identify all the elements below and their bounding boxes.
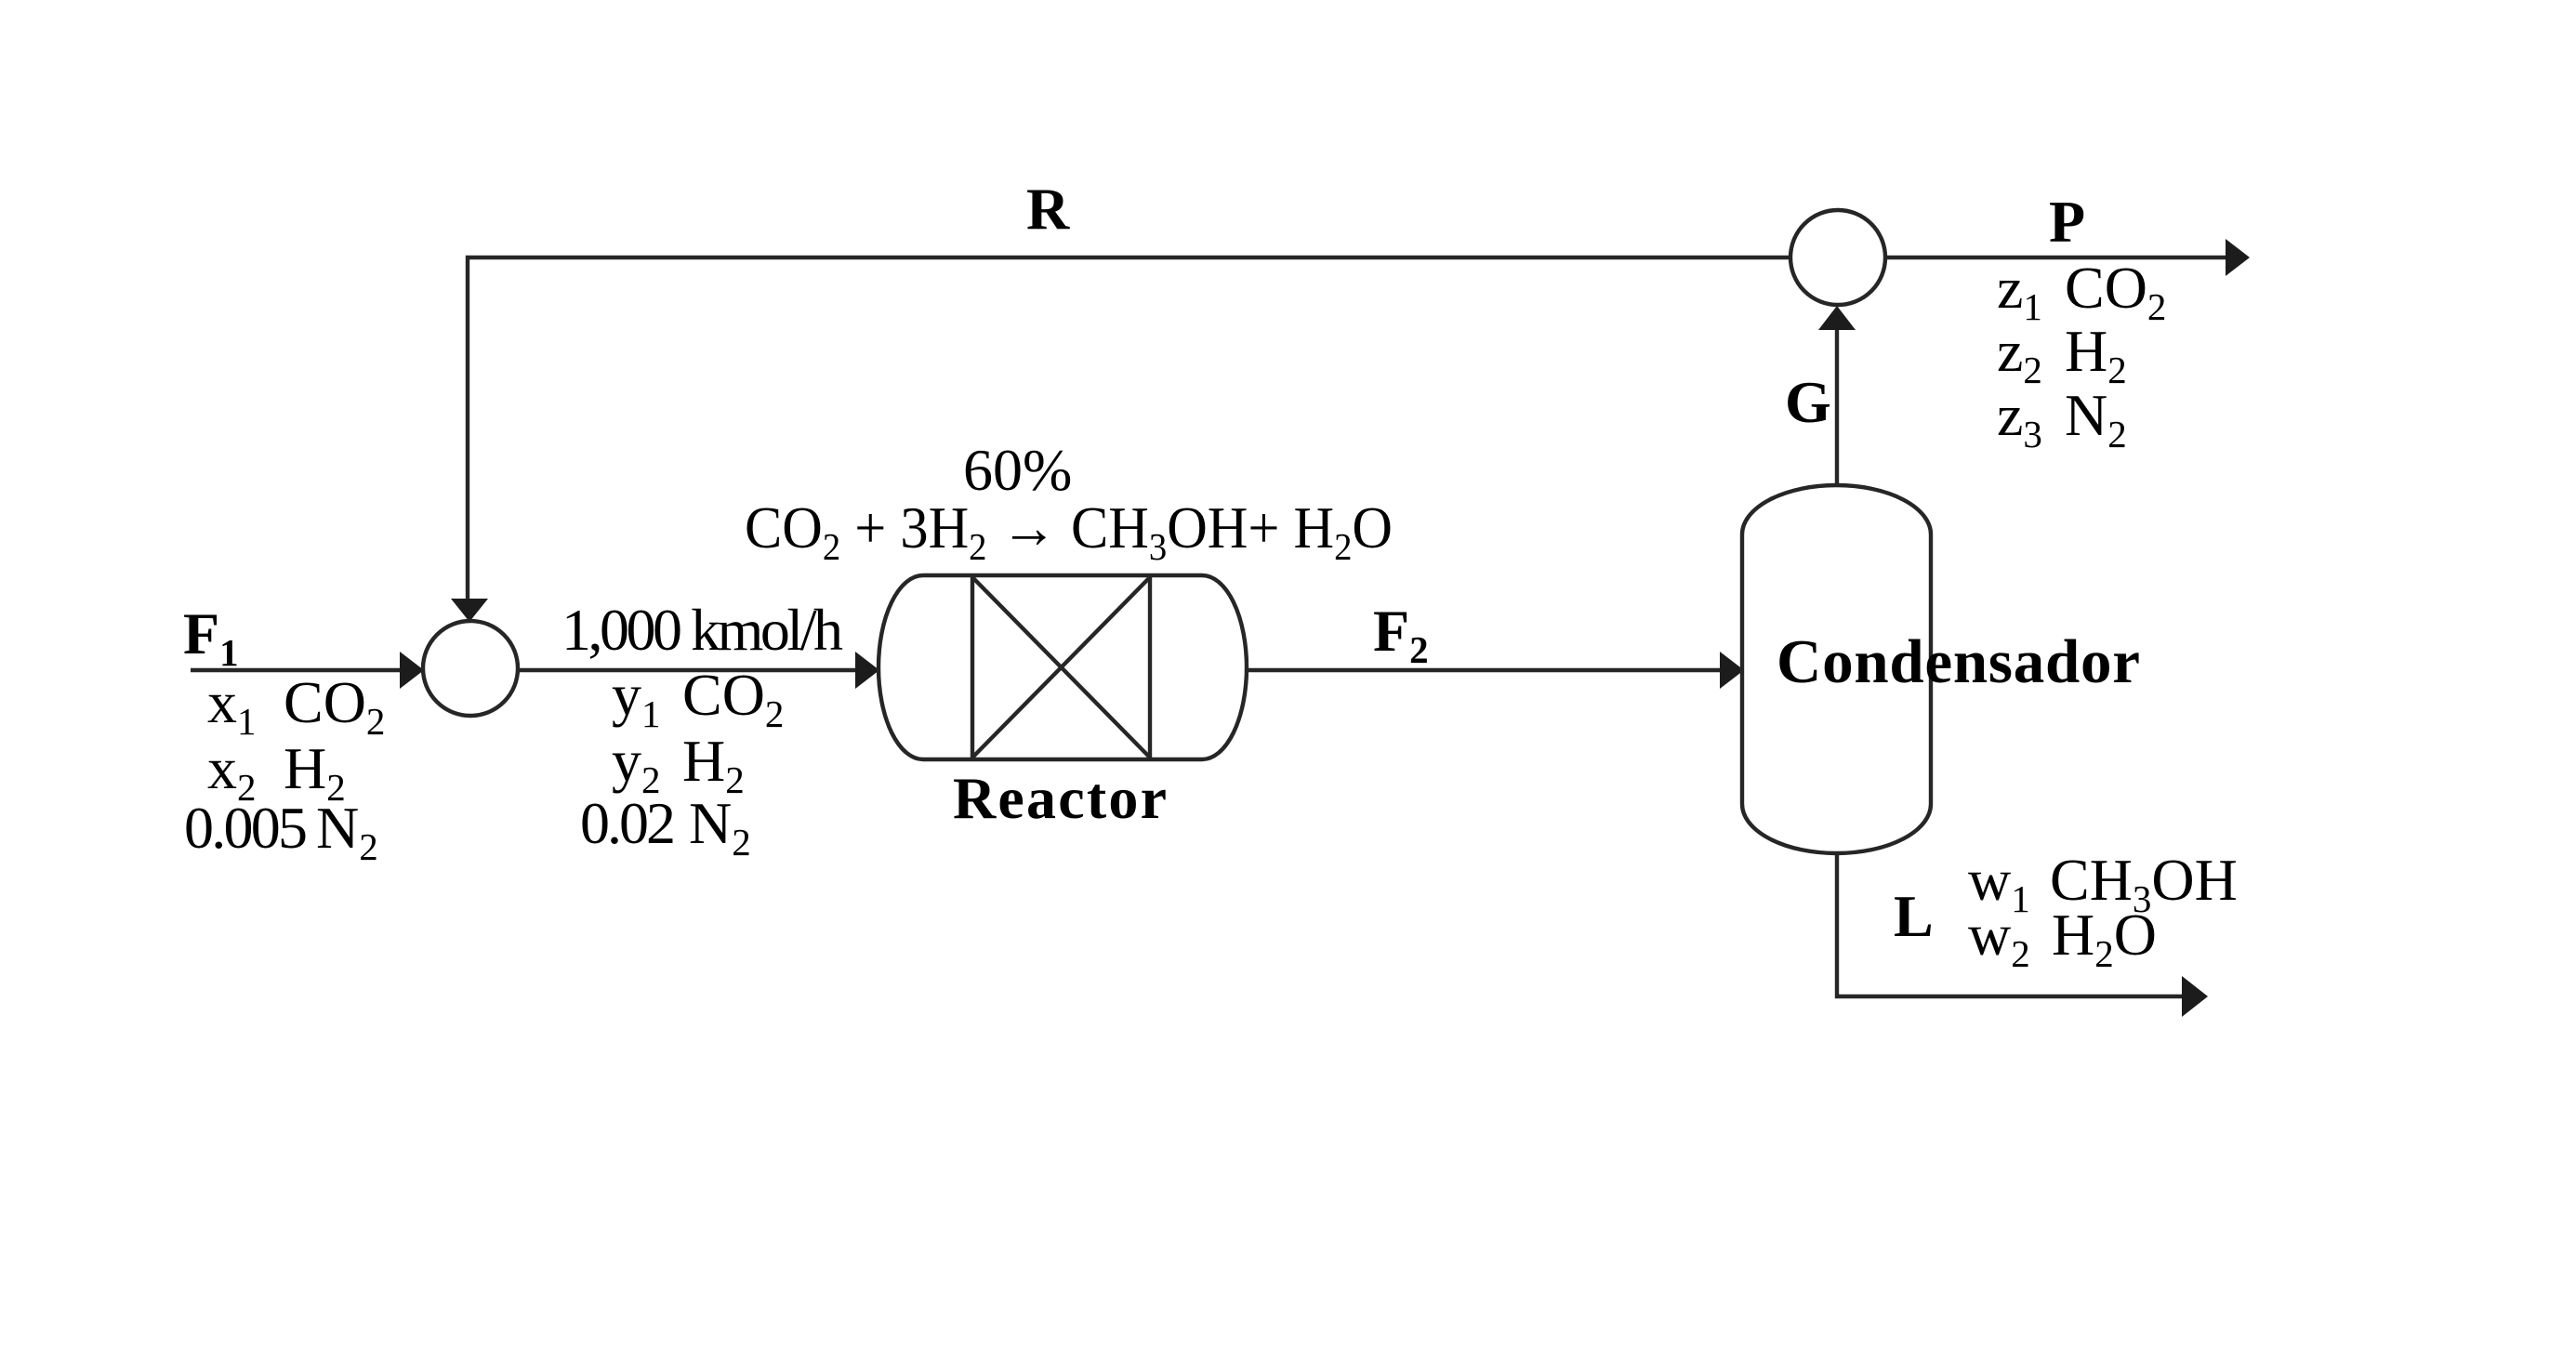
svg-text:CO2 + 3H2 → CH3OH+ H2O: CO2 + 3H2 → CH3OH+ H2O xyxy=(745,494,1393,568)
svg-text:0.02: 0.02 xyxy=(580,790,676,856)
svg-text:P: P xyxy=(2049,189,2085,255)
svg-text:G: G xyxy=(1785,369,1831,435)
svg-text:1,000 kmol/h: 1,000 kmol/h xyxy=(561,597,843,663)
svg-text:0.005: 0.005 xyxy=(184,795,308,861)
svg-text:R: R xyxy=(1026,176,1070,242)
svg-text:Reactor: Reactor xyxy=(953,765,1167,831)
svg-text:60%: 60% xyxy=(963,437,1072,503)
svg-text:L: L xyxy=(1894,883,1934,949)
svg-text:Condensador: Condensador xyxy=(1777,627,2140,696)
